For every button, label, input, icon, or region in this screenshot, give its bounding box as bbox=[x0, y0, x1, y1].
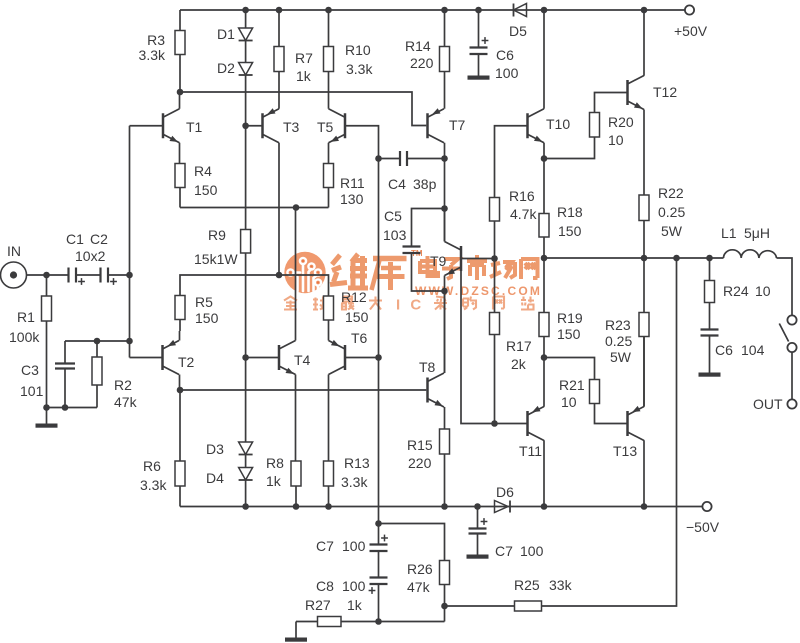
svg-text:T2: T2 bbox=[178, 354, 195, 370]
resistor R7 bbox=[274, 47, 284, 72]
wire R12 bottom lead bbox=[328, 320, 330, 341]
svg-text:R6: R6 bbox=[143, 458, 161, 474]
svg-text:R3: R3 bbox=[147, 32, 165, 48]
svg-text:R21: R21 bbox=[559, 377, 585, 393]
capacitor C7 (right) bbox=[469, 527, 487, 529]
svg-text:L1: L1 bbox=[721, 225, 737, 241]
wire L1 to switch bbox=[777, 258, 793, 315]
svg-text:R16: R16 bbox=[509, 188, 535, 204]
svg-text:R12: R12 bbox=[341, 289, 367, 305]
watermark chars dianzi shichang wang bbox=[420, 255, 538, 280]
svg-text:C6: C6 bbox=[715, 342, 733, 358]
wire T2-T8 row bbox=[180, 389, 426, 391]
transistor T5 collector bbox=[329, 109, 346, 118]
transistor T10 collector bbox=[528, 109, 545, 118]
node T11 base tap bbox=[491, 420, 498, 427]
svg-text:100k: 100k bbox=[9, 329, 40, 345]
switch contact top bbox=[787, 315, 796, 324]
node C5 top tap bbox=[441, 205, 448, 212]
transistor T13 collector bbox=[628, 432, 645, 441]
transistor T6 bar bbox=[344, 345, 347, 370]
wire R26 bottom lead bbox=[444, 585, 446, 622]
svg-text:T13: T13 bbox=[613, 443, 637, 459]
wire C4 right lead bbox=[408, 158, 445, 160]
wire R23 top lead bbox=[643, 258, 645, 313]
svg-text:T10: T10 bbox=[546, 116, 570, 132]
resistor R27 bbox=[318, 617, 342, 627]
polarity C6 + bbox=[482, 40, 489, 42]
wire C7r bottom lead bbox=[477, 534, 479, 555]
svg-text:T1: T1 bbox=[186, 119, 203, 135]
wire T7-T9 link bbox=[444, 159, 446, 242]
wire R6 bottom lead bbox=[179, 486, 181, 507]
wire D4 bottom lead bbox=[245, 480, 247, 507]
transistor T7 emitter bbox=[428, 109, 445, 118]
svg-text:3.3k: 3.3k bbox=[140, 477, 167, 493]
diode D2 bbox=[239, 63, 253, 76]
wire T5 base bbox=[345, 126, 379, 159]
wire C6 bottom lead bbox=[478, 55, 480, 76]
transistor T3 bar bbox=[261, 113, 264, 138]
resistor R15 bbox=[440, 429, 450, 454]
capacitor C4 bbox=[399, 151, 401, 166]
svg-text:104: 104 bbox=[741, 342, 765, 358]
wire T11 base bbox=[495, 423, 528, 425]
wire R21 top link bbox=[544, 358, 595, 380]
wire R18 bottom lead bbox=[543, 237, 545, 258]
node T5 base / C4 bbox=[375, 155, 382, 162]
transistor T5 bar bbox=[344, 113, 347, 138]
transistor T5 emitter bbox=[329, 134, 346, 143]
svg-text:R7: R7 bbox=[295, 50, 313, 66]
watermark slogan bbox=[284, 297, 297, 310]
wire C7 chain lead bbox=[378, 524, 380, 545]
svg-text:100: 100 bbox=[342, 578, 366, 594]
transistor T13 bar bbox=[626, 411, 629, 436]
node D4 rail bbox=[242, 503, 249, 510]
svg-text:I C: I C bbox=[396, 297, 424, 314]
wire R24 top lead bbox=[709, 258, 711, 281]
wire R3 bottom lead bbox=[179, 55, 181, 93]
wire C6 top lead bbox=[478, 10, 480, 47]
wire R13 bottom lead bbox=[328, 486, 330, 507]
wire D1-D2 bbox=[245, 41, 247, 63]
resistor R21 bbox=[590, 380, 600, 404]
node C7 chain top bbox=[375, 520, 382, 527]
svg-text:R5: R5 bbox=[195, 294, 213, 310]
wire R19 bottom lead bbox=[543, 337, 545, 358]
svg-text:T6: T6 bbox=[351, 330, 368, 346]
wire R7 to T3 emitter bbox=[278, 72, 280, 109]
wire input vertical bbox=[129, 126, 131, 358]
transistor T7 collector bbox=[428, 134, 445, 143]
wire R25 row bbox=[445, 605, 515, 607]
svg-text:100: 100 bbox=[495, 65, 519, 81]
node R14 rail bbox=[441, 7, 448, 14]
node R24 tap bbox=[706, 255, 713, 262]
svg-text:R25: R25 bbox=[514, 577, 540, 593]
connector IN outer bbox=[1, 262, 27, 288]
svg-text:T7: T7 bbox=[449, 117, 466, 133]
wire T1 base bbox=[130, 125, 164, 127]
resistor R13 bbox=[324, 461, 334, 486]
wire C6out bottom lead bbox=[709, 336, 711, 373]
diode D3 bbox=[239, 442, 253, 455]
node T4 collector tap bbox=[293, 204, 300, 211]
wire ground row bbox=[47, 407, 98, 409]
svg-text:C3: C3 bbox=[21, 362, 39, 378]
wire C2 to node bbox=[109, 274, 130, 276]
transistor T3 emitter bbox=[263, 109, 280, 118]
transistor T9 emitter bbox=[445, 267, 462, 276]
capacitor C1 bbox=[67, 268, 69, 283]
wire C4 left lead bbox=[379, 158, 400, 160]
wire R5 bottom lead bbox=[179, 320, 181, 332]
transistor T12 bar bbox=[626, 80, 629, 105]
switch contact mid bbox=[787, 343, 796, 352]
wire C7r top lead bbox=[477, 507, 479, 529]
node feedback tap bbox=[673, 255, 680, 262]
transistor T4 bar bbox=[278, 345, 281, 370]
wire R7 top lead bbox=[278, 10, 280, 47]
svg-text:D6: D6 bbox=[496, 484, 514, 500]
transistor T10 emitter bbox=[528, 134, 545, 143]
transistor T7 bar bbox=[426, 113, 429, 138]
transistor T8 emitter bbox=[428, 399, 445, 408]
node T11 rail bbox=[541, 503, 548, 510]
svg-text:R2: R2 bbox=[114, 377, 132, 393]
transistor T11 emitter bbox=[528, 407, 545, 416]
wire R10 to T5 collector bbox=[328, 72, 330, 109]
svg-text:R11: R11 bbox=[340, 175, 365, 191]
svg-text:R8: R8 bbox=[266, 455, 284, 471]
svg-text:R1: R1 bbox=[17, 309, 35, 325]
wire R16-R17 bbox=[494, 221, 496, 313]
svg-text:R15: R15 bbox=[407, 437, 433, 453]
node T2 collector bbox=[177, 387, 184, 394]
svg-text:−50V: −50V bbox=[686, 519, 720, 535]
wire R1 bottom lead bbox=[46, 321, 48, 424]
svg-text:47k: 47k bbox=[114, 394, 138, 410]
svg-text:103: 103 bbox=[383, 227, 407, 243]
svg-text:R22: R22 bbox=[658, 185, 684, 201]
wire bottom row bbox=[296, 621, 445, 623]
resistor R18 bbox=[539, 214, 549, 238]
transistor T2 emitter bbox=[163, 341, 180, 350]
node output/R22 bbox=[641, 255, 648, 262]
svg-text:R20: R20 bbox=[608, 114, 634, 130]
terminal -50V bbox=[702, 502, 711, 511]
node R15 rail bbox=[441, 503, 448, 510]
wire C3 top lead bbox=[64, 341, 66, 363]
node T3 base tap bbox=[242, 122, 249, 129]
svg-text:33k: 33k bbox=[549, 577, 573, 593]
wire R26 top link bbox=[379, 524, 445, 561]
resistor R14 bbox=[440, 47, 450, 72]
wire R24 bottom lead bbox=[709, 303, 711, 330]
transistor T9 collector bbox=[445, 242, 462, 251]
svg-text:R19: R19 bbox=[557, 310, 583, 326]
svg-text:C8: C8 bbox=[316, 578, 334, 594]
wire D2 to R9 bbox=[245, 75, 247, 230]
resistor R10 bbox=[324, 47, 334, 72]
wire C3 bottom lead bbox=[64, 369, 66, 408]
resistor R19 bbox=[539, 313, 549, 337]
node T4 base tap bbox=[242, 354, 249, 361]
node input bbox=[126, 272, 133, 279]
transistor T6 emitter bbox=[329, 341, 346, 350]
wire C5 top branch bbox=[412, 209, 445, 247]
watermark char ku bbox=[372, 259, 407, 291]
node C3 ground bbox=[62, 404, 69, 411]
node R16/R17 bbox=[491, 255, 498, 262]
node C8 bottom bbox=[375, 618, 382, 625]
svg-text:R10: R10 bbox=[345, 42, 371, 58]
wire center vertical bbox=[378, 159, 380, 524]
wire R2 top lead bbox=[96, 341, 98, 357]
wire R4 bottom lead bbox=[179, 188, 181, 208]
watermark logo bbox=[284, 252, 325, 293]
svg-text:3.3k: 3.3k bbox=[139, 47, 166, 63]
ground R1 bbox=[36, 424, 58, 428]
svg-text:47k: 47k bbox=[407, 579, 431, 595]
svg-text:100: 100 bbox=[342, 538, 366, 554]
svg-text:D5: D5 bbox=[509, 23, 527, 39]
wire R21 to T13 base bbox=[595, 404, 628, 424]
svg-text:C7: C7 bbox=[495, 543, 513, 559]
resistor R26 bbox=[440, 561, 450, 585]
wire R20 to T12 base bbox=[595, 93, 628, 113]
svg-text:R24: R24 bbox=[723, 283, 749, 299]
transistor T3 collector bbox=[263, 134, 280, 143]
connector IN pin bbox=[10, 271, 17, 278]
polarity C1 + bbox=[78, 281, 85, 283]
capacitor C7 (left) bbox=[370, 543, 388, 545]
svg-text:0.25: 0.25 bbox=[658, 204, 685, 220]
svg-text:OUT: OUT bbox=[753, 396, 783, 412]
resistor R2 bbox=[92, 357, 102, 385]
node R13 rail bbox=[325, 503, 332, 510]
wire R27 to ground bbox=[295, 622, 297, 638]
transistor T2 collector bbox=[163, 366, 180, 375]
transistor T2 bar bbox=[161, 345, 164, 370]
node output/R18 bbox=[541, 255, 548, 262]
svg-text:0.25: 0.25 bbox=[605, 333, 632, 349]
wire D3-D4 bbox=[245, 455, 247, 468]
svg-text:R13: R13 bbox=[344, 455, 370, 471]
node T2 base tap bbox=[126, 338, 133, 345]
svg-text:10: 10 bbox=[608, 132, 624, 148]
wire +50V rail bbox=[180, 9, 685, 11]
node C7 rail bbox=[474, 503, 481, 510]
node R10 rail bbox=[325, 7, 332, 14]
wire R17 bottom lead bbox=[494, 335, 496, 424]
svg-text:IN: IN bbox=[7, 243, 21, 259]
wire R23 bottom lead bbox=[643, 337, 645, 407]
svg-text:4.7k: 4.7k bbox=[510, 206, 537, 222]
node D1 rail bbox=[242, 7, 249, 14]
svg-text:R17: R17 bbox=[506, 338, 532, 354]
node T13 rail bbox=[641, 503, 648, 510]
svg-text:D3: D3 bbox=[206, 441, 224, 457]
svg-text:R26: R26 bbox=[407, 561, 433, 577]
resistor R23 bbox=[639, 313, 649, 337]
resistor R12 bbox=[324, 296, 334, 320]
node R1 tap bbox=[43, 272, 50, 279]
ground C6 bbox=[468, 76, 490, 80]
wire R3 top lead bbox=[179, 10, 181, 31]
node T9 emitter / C5 bbox=[441, 288, 448, 295]
svg-text:5W: 5W bbox=[661, 223, 683, 239]
resistor R9 bbox=[241, 230, 251, 254]
diode D6 bbox=[495, 501, 509, 513]
transistor T12 emitter bbox=[628, 101, 645, 110]
capacitor C6 (top) bbox=[470, 46, 488, 48]
svg-text:C1: C1 bbox=[66, 231, 84, 247]
resistor R22 bbox=[639, 195, 649, 221]
node R26/R25 bbox=[441, 603, 448, 610]
node R19/R21 bbox=[541, 354, 548, 361]
wire T9 base bbox=[461, 258, 495, 260]
svg-text:1k: 1k bbox=[347, 597, 363, 613]
wire R19 top lead bbox=[543, 258, 545, 313]
svg-text:5μH: 5μH bbox=[744, 225, 770, 241]
wire D1 top lead bbox=[245, 10, 247, 28]
node C6 rail bbox=[475, 7, 482, 14]
resistor R17 bbox=[490, 313, 500, 335]
svg-text:150: 150 bbox=[194, 182, 218, 198]
transistor T11 collector bbox=[528, 432, 545, 441]
capacitor C8 bbox=[370, 576, 388, 578]
wire C8 bottom lead bbox=[378, 585, 380, 622]
polarity C8 + bbox=[369, 590, 376, 592]
wire -50V rail bbox=[180, 506, 702, 508]
ground C6 out bbox=[699, 373, 721, 377]
transistor T12 collector bbox=[628, 76, 645, 85]
svg-text:150: 150 bbox=[557, 326, 581, 342]
svg-text:R14: R14 bbox=[405, 38, 431, 54]
wire R22 bottom lead bbox=[643, 221, 645, 259]
svg-text:C7: C7 bbox=[316, 538, 334, 554]
svg-text:C6: C6 bbox=[496, 47, 514, 63]
svg-text:C2: C2 bbox=[90, 231, 108, 247]
wire R14 top lead bbox=[444, 10, 446, 47]
watermark char wei bbox=[330, 254, 368, 290]
node C4/T7 collector bbox=[441, 155, 448, 162]
resistor R11 bbox=[324, 164, 334, 188]
svg-text:1k: 1k bbox=[266, 473, 282, 489]
capacitor C2 bbox=[99, 268, 101, 283]
transistor T4 emitter bbox=[279, 366, 296, 375]
svg-text:2k: 2k bbox=[511, 356, 527, 372]
wire R9 to D3 bbox=[245, 253, 247, 442]
svg-text:130: 130 bbox=[340, 191, 364, 207]
svg-text:T5: T5 bbox=[317, 119, 334, 135]
watermark underlay bbox=[284, 249, 542, 314]
svg-text:T9: T9 bbox=[430, 253, 447, 269]
wire T4 base bbox=[246, 357, 279, 359]
wire T3 base bbox=[246, 125, 262, 127]
polarity C2 + bbox=[110, 281, 117, 283]
wire R1 top lead bbox=[46, 275, 48, 296]
resistor R8 bbox=[291, 461, 301, 486]
terminal +50V bbox=[685, 5, 694, 14]
svg-text:1k: 1k bbox=[296, 68, 312, 84]
wire R11 bottom lead bbox=[328, 188, 330, 208]
wire C7-C8 bbox=[378, 552, 380, 578]
wire C1-C2 bbox=[77, 274, 100, 276]
terminal OUT bbox=[787, 399, 796, 408]
svg-text:101: 101 bbox=[20, 383, 44, 399]
wire switch to OUT bbox=[791, 352, 793, 399]
transistor T1 collector bbox=[163, 109, 180, 118]
transistor T1 emitter bbox=[163, 134, 180, 143]
svg-text:C4: C4 bbox=[388, 176, 406, 192]
transistor T9 bar bbox=[460, 246, 463, 271]
svg-text:38p: 38p bbox=[413, 176, 437, 192]
node R7 rail bbox=[276, 7, 283, 14]
svg-text:T8: T8 bbox=[419, 359, 436, 375]
wire T2 base bbox=[130, 357, 163, 359]
ground R27 bbox=[285, 638, 307, 642]
transistor T4 collector bbox=[279, 341, 296, 350]
resistor R5 bbox=[175, 296, 185, 320]
wire R5-R12 row bbox=[180, 275, 329, 296]
wire R6 top lead bbox=[179, 390, 181, 461]
node T12 rail bbox=[641, 7, 648, 14]
transistor T8 bar bbox=[426, 378, 429, 403]
node R2 top bbox=[94, 338, 101, 345]
svg-text:10x2: 10x2 bbox=[75, 248, 106, 264]
resistor R4 bbox=[175, 164, 185, 188]
svg-text:T4: T4 bbox=[294, 352, 311, 368]
svg-text:150: 150 bbox=[195, 310, 219, 326]
node T10 emitter bbox=[541, 155, 548, 162]
diode D5 bbox=[514, 4, 527, 17]
svg-text:T11: T11 bbox=[519, 443, 542, 459]
svg-text:R4: R4 bbox=[194, 163, 212, 179]
wire R10 top lead bbox=[328, 10, 330, 47]
capacitor C3 bbox=[55, 362, 75, 364]
resistor R3 bbox=[175, 31, 185, 55]
wire T6 base bbox=[345, 357, 379, 359]
wire R8 bottom lead bbox=[295, 486, 297, 507]
resistor R6 bbox=[175, 461, 185, 486]
transistor T10 bar bbox=[526, 113, 529, 138]
svg-text:5W: 5W bbox=[610, 349, 632, 365]
svg-text:R27: R27 bbox=[305, 597, 331, 613]
svg-text:220: 220 bbox=[410, 55, 434, 71]
wire T10 base bbox=[495, 126, 527, 198]
transistor T13 emitter bbox=[628, 407, 645, 416]
diode D1 bbox=[239, 28, 253, 41]
wire R14 to T7 emitter bbox=[444, 72, 446, 109]
capacitor C6 (out) bbox=[701, 328, 719, 330]
resistor R16 bbox=[490, 198, 500, 222]
wire output row bbox=[544, 257, 724, 259]
transistor T11 bar bbox=[526, 411, 529, 436]
wire IN to C1 bbox=[27, 274, 68, 276]
svg-text:D1: D1 bbox=[217, 26, 235, 42]
switch lever bbox=[779, 324, 788, 342]
svg-text:T3: T3 bbox=[283, 119, 300, 135]
wire R2 bottom lead bbox=[96, 385, 98, 408]
node R3/T1 bbox=[177, 89, 184, 96]
svg-text:D2: D2 bbox=[217, 60, 235, 76]
svg-text:100: 100 bbox=[520, 543, 544, 559]
svg-text:R23: R23 bbox=[605, 317, 631, 333]
resistor R24 bbox=[705, 281, 715, 303]
